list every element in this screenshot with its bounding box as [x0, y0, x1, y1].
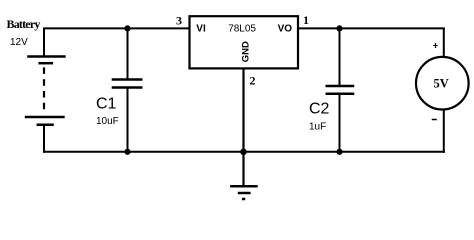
pin number 3: [176, 14, 182, 28]
svg-text:C2: C2: [309, 101, 330, 118]
label 5V: [434, 77, 449, 91]
svg-text:12V: 12V: [10, 37, 28, 48]
voltage source 5V output: [416, 57, 469, 110]
node junction dot C1 bottom: [124, 149, 130, 155]
wire battery negative lead: [43, 126, 45, 153]
svg-text:5V: 5V: [434, 77, 449, 91]
svg-text:VO: VO: [278, 24, 293, 35]
svg-text:GND: GND: [240, 41, 251, 62]
wire C2 top lead: [339, 28, 341, 85]
node junction dot ground rail: [240, 149, 247, 156]
label C2: [309, 101, 330, 118]
wire output top lead: [443, 28, 445, 57]
wire bottom ground rail: [43, 151, 445, 153]
svg-text:Battery: Battery: [7, 17, 41, 31]
ground: [230, 186, 258, 199]
node junction dot C1 top: [124, 25, 130, 31]
svg-text:2: 2: [250, 73, 256, 87]
label Battery: [7, 17, 41, 31]
pin label VO: [278, 24, 293, 35]
pin label VI: [196, 24, 206, 35]
label + polarity: [433, 43, 438, 48]
node junction dot C2 bottom: [336, 149, 342, 155]
wire GND pin 2 lead to ground: [242, 69, 244, 186]
label 10uF: [96, 116, 119, 127]
node junction dot C2 top: [336, 25, 342, 31]
svg-text:1: 1: [303, 13, 309, 27]
wire output bottom lead: [443, 110, 445, 153]
wire top-left rail from battery to VI: [44, 27, 190, 29]
svg-text:78L05: 78L05: [228, 24, 256, 35]
svg-text:VI: VI: [196, 24, 206, 35]
battery B1: [25, 57, 66, 125]
label 78L05: [228, 24, 256, 35]
wire battery positive lead: [43, 27, 45, 56]
op-amp U1 78L05 regulator box: [190, 16, 299, 68]
wire C1 top lead: [127, 28, 129, 79]
wire C2 bottom lead: [339, 94, 341, 152]
svg-text:3: 3: [176, 14, 182, 28]
capacitor C1: [112, 80, 143, 88]
label 12V: [10, 37, 28, 48]
pin number 1: [303, 13, 309, 27]
label - polarity: [432, 119, 437, 121]
svg-text:C1: C1: [96, 96, 117, 113]
label C1: [96, 96, 117, 113]
capacitor C2: [326, 86, 355, 94]
svg-text:10uF: 10uF: [96, 116, 119, 127]
label 1uF: [309, 121, 326, 132]
svg-text:1uF: 1uF: [309, 121, 326, 132]
pin label GND: [240, 41, 251, 62]
pin number 2: [250, 73, 256, 87]
wire top-right rail from VO: [298, 27, 445, 29]
wire C1 bottom lead: [127, 88, 129, 152]
